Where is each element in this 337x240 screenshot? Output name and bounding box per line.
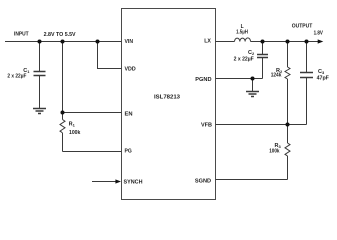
svg-text:PGND: PGND xyxy=(195,77,211,83)
svg-text:C2: C2 xyxy=(248,50,255,56)
svg-text:1.8V: 1.8V xyxy=(314,30,324,36)
svg-text:2.8V TO 5.5V: 2.8V TO 5.5V xyxy=(44,32,77,38)
svg-text:2 x 22µF: 2 x 22µF xyxy=(7,74,26,80)
svg-text:R1: R1 xyxy=(69,122,76,128)
svg-text:100k: 100k xyxy=(269,149,280,155)
svg-text:1.5µH: 1.5µH xyxy=(236,30,248,36)
svg-text:EN: EN xyxy=(125,112,133,118)
svg-text:INPUT: INPUT xyxy=(14,32,29,38)
svg-text:ISL78213: ISL78213 xyxy=(154,95,181,101)
svg-text:VFB: VFB xyxy=(201,122,212,128)
svg-text:OUTPUT: OUTPUT xyxy=(292,24,313,30)
svg-text:100k: 100k xyxy=(69,130,81,136)
svg-text:SGND: SGND xyxy=(195,179,211,185)
svg-text:2 x 22µF: 2 x 22µF xyxy=(234,56,254,62)
svg-text:SYNCH: SYNCH xyxy=(124,179,143,185)
svg-text:VDD: VDD xyxy=(125,66,136,72)
svg-text:VIN: VIN xyxy=(125,39,134,45)
svg-text:LX: LX xyxy=(204,39,211,45)
svg-text:PG: PG xyxy=(125,149,133,155)
svg-text:124k: 124k xyxy=(271,73,282,79)
svg-text:C3: C3 xyxy=(318,69,325,75)
svg-text:47pF: 47pF xyxy=(317,76,329,82)
